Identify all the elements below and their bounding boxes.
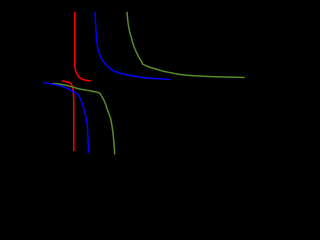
red curve left branch <box>62 81 74 151</box>
red curve right branch <box>75 12 91 81</box>
green curve left branch <box>53 83 115 154</box>
chart background <box>0 0 266 186</box>
blue curve right branch <box>95 12 171 80</box>
blue curve left branch <box>43 82 88 153</box>
green curve right branch <box>127 12 245 78</box>
